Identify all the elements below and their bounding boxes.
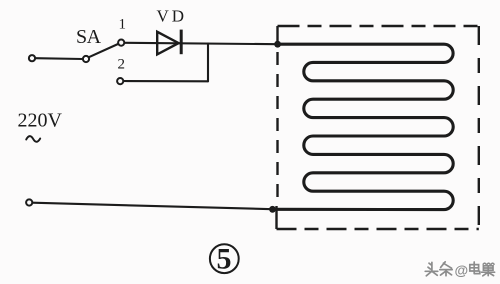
- svg-text:@: @: [455, 262, 469, 278]
- svg-text:VD: VD: [157, 7, 188, 26]
- svg-text:1: 1: [119, 17, 127, 33]
- svg-text:220V: 220V: [18, 110, 63, 132]
- svg-text:2: 2: [118, 57, 126, 73]
- svg-text:5: 5: [217, 243, 232, 276]
- svg-text:SA: SA: [76, 26, 102, 48]
